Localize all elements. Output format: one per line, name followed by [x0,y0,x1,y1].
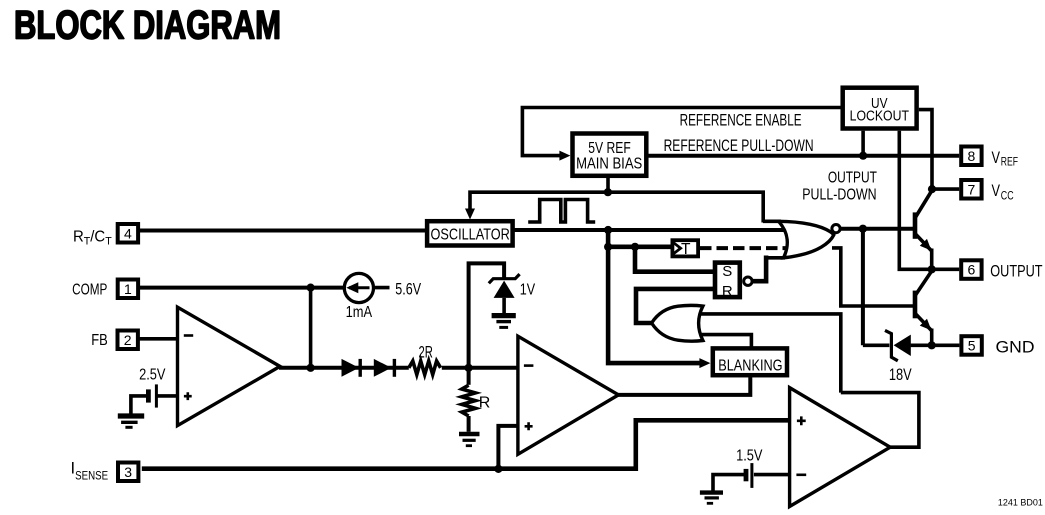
pin 7 box [961,180,981,199]
svg-text:REF: REF [1001,155,1018,169]
wire RT/CT pin4 to oscillator [140,229,426,233]
NOR gate U3 [763,221,840,257]
wire pin 6 output node [932,267,960,271]
node junction at 311,288 [307,284,315,292]
svg-text:LOCKOUT: LOCKOUT [850,108,909,125]
plus sign error amp [184,392,192,400]
wire reference enable: UV lockout to 5V REF box [522,108,840,156]
node junction at 863,229 [859,225,867,233]
ground below 1.5V battery [700,493,723,504]
svg-text:5.6V: 5.6V [395,280,421,299]
wire COMP node vertical [309,288,313,368]
diode D2 [374,359,395,377]
node junction at 469,368 [465,364,473,372]
SR latch box [715,263,752,300]
wire OR gate top input from comparator routing [697,314,841,393]
wire VCC node to pin 7 [932,187,959,191]
ground below 2.5V battery [118,416,144,427]
wire ISENSE to comparator 2 plus input [498,426,518,469]
label OUTPUT PULL-DOWN [802,169,877,203]
wire to T flip-flop [608,245,671,250]
wire bias rail horizontal [470,192,763,222]
label 5V REF MAIN BIAS [576,140,642,172]
wire NOR lower stub to Q2 base [832,248,913,306]
svg-text:1V: 1V [520,282,536,299]
svg-text:18V: 18V [889,366,912,384]
node junction at 498,469 [494,465,502,473]
svg-text:FB: FB [91,332,108,349]
transistor Q1 (top NPN) [913,190,933,270]
svg-text:7: 7 [968,181,976,197]
wire FB pin to error amp [138,337,178,341]
dashed wire T flip-flop to NOR gate [700,246,789,250]
BLANKING box [713,348,787,375]
wire 2.5V battery to error amp plus input [156,394,178,398]
svg-text:T: T [681,241,691,258]
wire zener to GND node [863,343,890,347]
wire 1V zener branch [469,263,505,367]
5V REF MAIN BIAS box [573,134,647,176]
pin 2 box [118,331,138,350]
pin 4 box [118,224,138,243]
wire NOR output to Q1 base [840,227,913,231]
svg-text:6: 6 [968,262,976,278]
svg-text:2.5V: 2.5V [139,366,166,383]
plus sign comparator 3 [797,416,806,425]
node junction at 932,345 [928,341,936,349]
pin 1 box [118,280,138,299]
svg-text:COMP: COMP [72,282,107,299]
svg-text:PULL-DOWN: PULL-DOWN [802,186,876,203]
wire OR gate bottom input from BLANKING [697,335,751,347]
pin 8 box [961,147,981,166]
current source 1mA [344,273,373,302]
label UV LOCKOUT [850,95,909,124]
node junction at 608,192 [604,188,612,196]
OR gate U4 (mirrored, output at left) [652,305,703,341]
wire NOR output down to 18V zener [861,229,865,346]
T flip-flop box [672,240,698,258]
svg-text:2: 2 [124,332,132,348]
svg-text:OSCILLATOR: OSCILLATOR [431,226,510,243]
zener diode 18V [885,330,911,360]
svg-text:CC: CC [1001,188,1014,202]
wire ISENSE pin 3 line [142,420,790,468]
wire after 2R to comparator minus input [442,366,518,370]
node junction at 863,156 [859,152,867,160]
wire clock junction vertical and blanking feed [608,230,700,363]
svg-text:S: S [722,263,732,280]
wire reference pull-down: 5V REF to pin 8 VREF [649,154,960,158]
diode D1 [342,359,361,377]
wire oscillator output to NOR gate [514,228,788,232]
svg-text:REFERENCE ENABLE: REFERENCE ENABLE [680,112,802,130]
node junction at 932,269 [928,265,936,273]
pin 6 box [961,260,981,279]
svg-text:8: 8 [968,148,976,164]
battery 2.5V [148,384,156,407]
comparator overcurrent [790,388,891,507]
pin 5 box [961,336,981,355]
svg-text:1241 BD01: 1241 BD01 [998,498,1043,509]
wire current source right stub [373,286,390,290]
minus sign comparator 2 [524,364,534,367]
plus sign comparator 2 [525,422,533,430]
transistor Q2 (bottom NPN) [913,270,933,346]
op-amp error amplifier [178,307,281,425]
svg-text:2R: 2R [419,343,433,361]
svg-text:3: 3 [124,464,132,480]
wire resistor R branch to ground [467,368,471,385]
arrowhead into 5V REF box [559,151,570,161]
battery 1.5V [746,463,752,488]
svg-text:4: 4 [124,225,132,241]
wire comparator 3 output routing [841,393,919,448]
svg-text:R: R [722,283,733,300]
wire UV lockout right to VCC node [919,110,932,190]
wire OR output to R input of latch [636,289,713,323]
svg-text:5: 5 [968,338,976,354]
wire SR latch output to NOR gate [752,256,766,282]
resistor R (vertical) [462,385,476,416]
svg-text:V: V [992,148,1001,167]
clock waveform symbol [528,200,595,223]
ground below resistor R [459,434,480,446]
wire to S input of latch [635,247,713,272]
svg-text:1: 1 [124,281,132,297]
svg-text:BLOCK DIAGRAM: BLOCK DIAGRAM [14,4,281,48]
node junction at 932,189 [928,185,936,193]
ground below 1V zener [492,316,516,328]
comparator current sense [518,336,619,454]
wire UV lockout left drop to VREF line [861,131,865,156]
minus sign comparator 3 [796,473,806,476]
arrowhead into BLANKING [699,358,710,368]
wire UV lockout output pull-down drop to output node [899,131,931,270]
wire 1.5V battery to comparator 3 minus input [754,473,790,477]
wire error amp output / diode string [279,366,409,370]
pin 3 box [118,463,138,482]
svg-text:R: R [479,395,491,412]
svg-text:REFERENCE PULL-DOWN: REFERENCE PULL-DOWN [664,137,814,155]
node junction at 635,247 [631,243,639,251]
svg-text:OUTPUT: OUTPUT [990,262,1042,280]
svg-text:MAIN BIAS: MAIN BIAS [576,156,642,173]
wire comparator 2 output to BLANKING bottom [618,377,750,395]
zener diode 1V [489,274,520,313]
arrowhead into oscillator top [465,209,475,220]
svg-text:BLANKING: BLANKING [718,358,782,375]
svg-text:1.5V: 1.5V [736,448,763,465]
svg-text:OUTPUT: OUTPUT [828,169,877,186]
wire COMP pin to current source [140,286,344,290]
node junction at 311,368 [307,364,315,372]
node junction at 608,230 [604,226,612,234]
minus sign error amp [184,334,193,337]
svg-text:GND: GND [996,339,1035,357]
OSCILLATOR box [427,221,512,245]
svg-text:V: V [992,181,1001,200]
UV LOCKOUT box [843,88,917,129]
wire 5V REF box bottom to bias rail [606,178,610,192]
svg-text:1mA: 1mA [346,304,373,321]
node junction at 608,247 [604,243,612,251]
resistor 2R [409,361,441,375]
